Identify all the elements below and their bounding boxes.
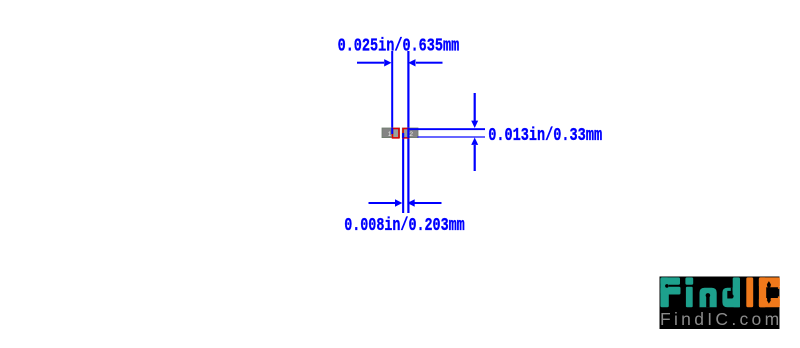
arrowhead down-pointing (right dim) xyxy=(471,121,478,128)
logo letter d (teal) xyxy=(722,277,740,307)
right dim: upper arrow line xyxy=(474,93,476,121)
arrowhead right-pointing (bottom dim) xyxy=(395,199,402,206)
dimension line left segment (top dim) xyxy=(357,62,384,64)
component body right terminal (gray) xyxy=(402,128,418,138)
d circuit trace xyxy=(731,288,733,295)
pad 1 red outline xyxy=(393,129,399,138)
re-draw extension line B over component xyxy=(407,128,409,138)
arrowhead right-pointing (top dim left) xyxy=(384,59,391,66)
extension line A (left, x=392) xyxy=(391,51,393,134)
component body left terminal (gray) xyxy=(382,128,400,138)
right dim: top extension line (y=129) xyxy=(409,128,485,130)
arrowhead up-pointing (right dim) xyxy=(471,138,478,145)
logo letter I (orange) xyxy=(746,277,753,307)
C circuit trace line xyxy=(768,283,770,301)
arrowhead left-pointing (bottom dim) xyxy=(407,199,414,206)
pad 1 fill xyxy=(393,129,398,137)
re-draw extension line A over pad xyxy=(391,128,393,134)
re-draw extension line C over pad xyxy=(402,133,404,138)
logo black background plate xyxy=(660,277,780,330)
d circuit pad dot xyxy=(730,294,734,298)
n circuit slot xyxy=(706,296,709,307)
logo letter i (teal) xyxy=(685,277,693,307)
right dim: bottom extension line (y=137) xyxy=(418,136,486,137)
pad 2 fill xyxy=(404,129,409,137)
bottom dim line right segment xyxy=(414,202,442,204)
extension line B (right, x=408) xyxy=(407,51,409,213)
F circuit pad dot xyxy=(665,284,669,288)
C trace arrowheads xyxy=(767,281,771,285)
C circuit pad dots xyxy=(767,284,771,288)
logo letter C (orange) xyxy=(759,277,780,307)
pad 2 red outline xyxy=(403,129,409,138)
logo letter F (teal) xyxy=(660,277,680,307)
bottom dim line left segment xyxy=(369,202,397,204)
extension line C (x=403) xyxy=(402,133,404,213)
svg-text:FindIC.com: FindIC.com xyxy=(660,309,782,329)
logo letter n (teal) xyxy=(700,288,717,308)
n circuit pad dot xyxy=(706,293,711,298)
right dim: lower arrow line xyxy=(474,145,476,171)
arrowhead left-pointing (top dim right) xyxy=(408,59,415,66)
dimension line right segment (top dim) xyxy=(416,62,443,64)
